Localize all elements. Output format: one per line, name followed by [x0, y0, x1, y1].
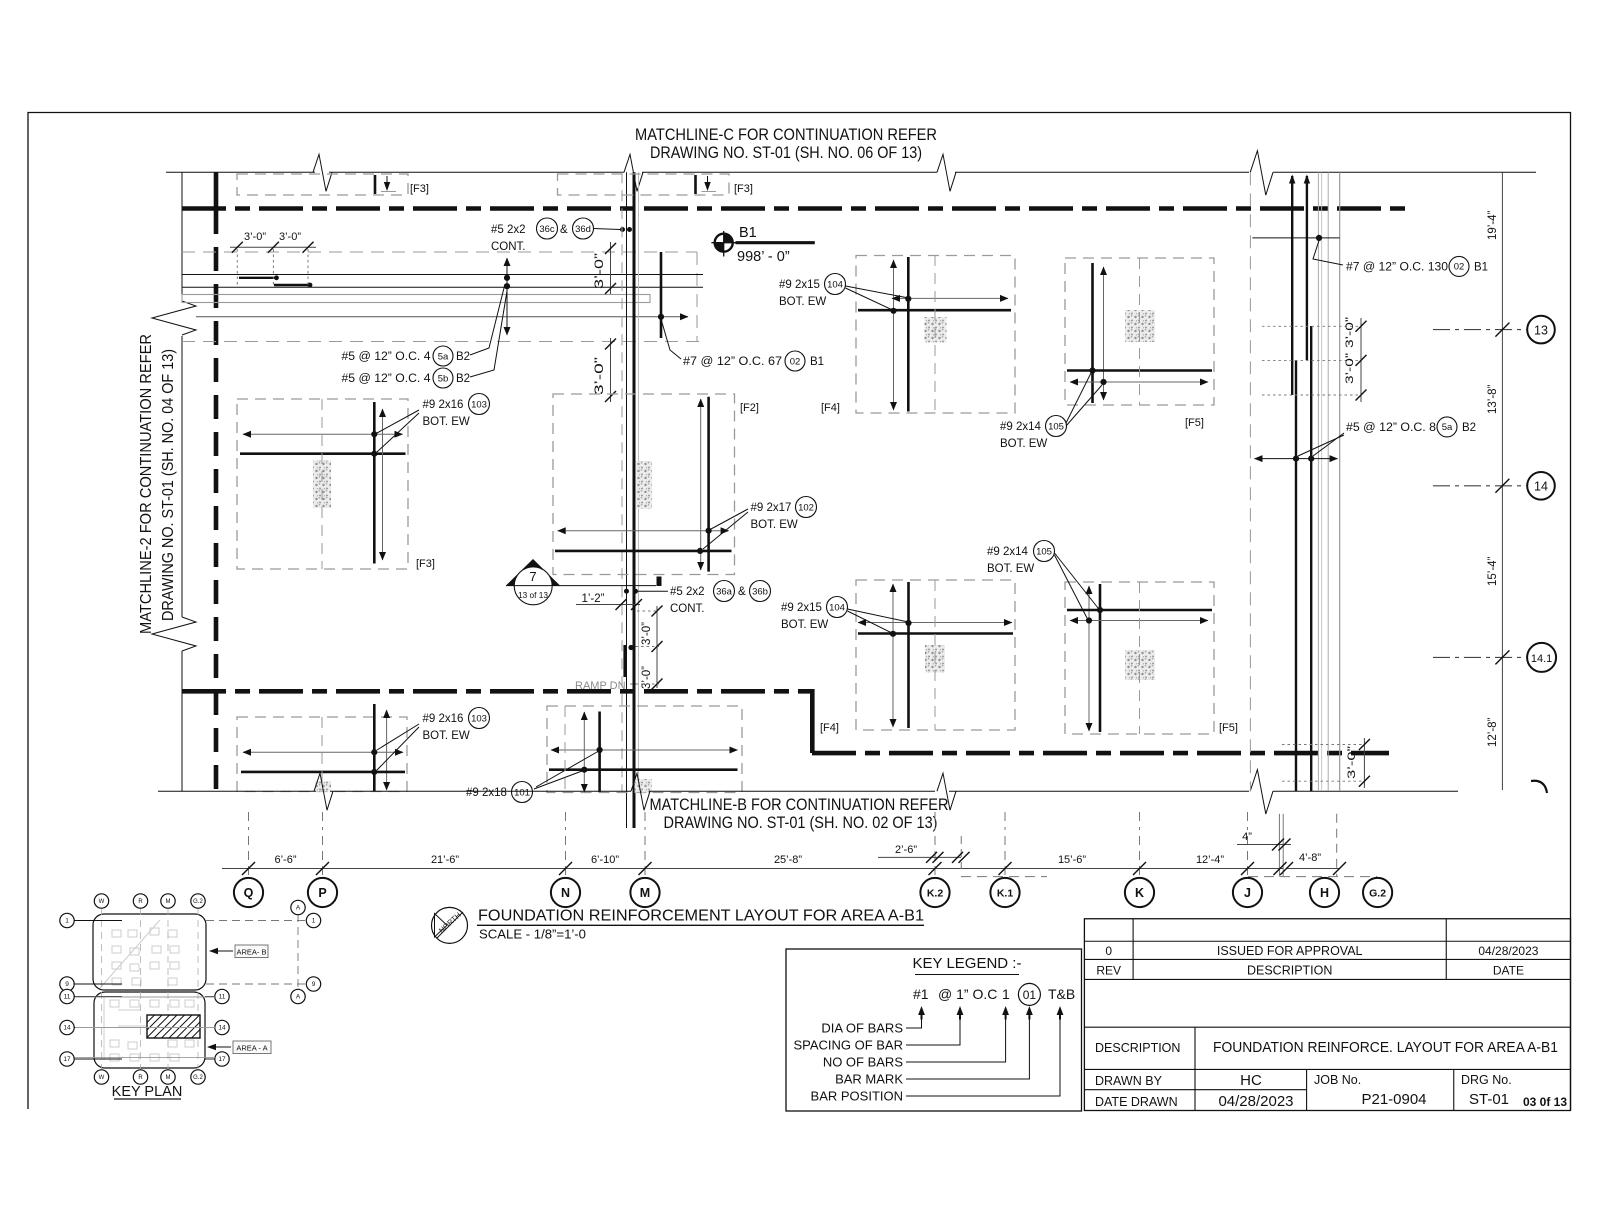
svg-text:[F3]: [F3] [734, 183, 753, 195]
svg-text:[F5]: [F5] [1219, 722, 1238, 734]
svg-text:#5 @ 12” O.C. 8: #5 @ 12” O.C. 8 [1346, 422, 1436, 434]
svg-text:21’-6”: 21’-6” [431, 854, 459, 866]
svg-text:B1: B1 [1474, 262, 1488, 274]
key plan left bubbles [74, 920, 122, 922]
svg-text:9: 9 [65, 981, 69, 988]
svg-text:SPACING OF BAR: SPACING OF BAR [793, 1038, 903, 1053]
svg-text:#9 2x18: #9 2x18 [466, 787, 507, 799]
north symbol [432, 907, 468, 943]
vertical bar marker x=507 [506, 258, 508, 335]
svg-text:BOT. EW: BOT. EW [779, 296, 826, 308]
svg-text:HC: HC [1240, 1072, 1262, 1089]
svg-text:3’-0”: 3’-0” [244, 231, 266, 243]
bottom-center hatch [635, 779, 653, 793]
svg-text:#5 2x2: #5 2x2 [670, 586, 705, 598]
top band rebar line y=274.5 [182, 274, 703, 276]
svg-text:0: 0 [1105, 944, 1112, 958]
key plan lower grid lines [75, 996, 215, 998]
right wall gray faces [1317, 172, 1319, 791]
key plan upper block [93, 914, 206, 990]
svg-text:BAR MARK: BAR MARK [835, 1072, 903, 1087]
svg-text:#9 2x16: #9 2x16 [423, 713, 464, 725]
title block horizontal lines [1084, 940, 1570, 942]
svg-text:BOT. EW: BOT. EW [1000, 438, 1047, 450]
M wall rebar thin x=626.5 [626, 172, 628, 828]
main bottom dimension line [222, 868, 1283, 870]
svg-text:NO OF BARS: NO OF BARS [823, 1055, 904, 1070]
page border frame [28, 113, 1571, 1111]
F3 bottom hatch [315, 781, 331, 792]
svg-text:K: K [1135, 886, 1144, 900]
svg-text:105: 105 [1048, 421, 1064, 432]
svg-text:19’-4”: 19’-4” [1487, 210, 1499, 240]
svg-text:36b: 36b [752, 586, 768, 597]
svg-text:5b: 5b [438, 373, 449, 384]
footing F3 top-left (cut) [237, 174, 408, 195]
K.2 grid dashes through footings [934, 255, 936, 413]
footing F4 upper [856, 256, 1015, 414]
svg-text:1: 1 [1002, 986, 1010, 1002]
key plan hatched area A-B1 [147, 1015, 200, 1038]
break symbol bottom 1 [314, 773, 333, 810]
svg-text:RAMP DN: RAMP DN [575, 680, 626, 692]
svg-text:[F4]: [F4] [820, 722, 839, 734]
svg-text:14: 14 [63, 1025, 71, 1032]
footing F2 center [553, 394, 735, 575]
svg-text:1: 1 [312, 918, 316, 925]
svg-text:12’-8”: 12’-8” [1487, 717, 1499, 747]
key plan right bubbles [205, 996, 215, 998]
key plan area boundary dashed [206, 920, 306, 922]
right wall rebar B [1306, 176, 1308, 360]
svg-text:02: 02 [1454, 262, 1465, 273]
grid bubble M [630, 878, 659, 907]
section marker 7 / 13 of 13 [506, 559, 560, 586]
B1 benchmark symbol [715, 234, 733, 252]
svg-text:998’ - 0”: 998’ - 0” [737, 249, 790, 265]
M wall rebar thick x=634 [633, 172, 636, 828]
key legend box [786, 949, 1082, 1111]
3-0 3-0 vertical dim top right [1262, 325, 1361, 327]
right vertical dim line [1501, 172, 1503, 790]
svg-text:BAR POSITION: BAR POSITION [811, 1089, 903, 1104]
svg-text:1’-2”: 1’-2” [581, 593, 604, 605]
svg-text:M: M [166, 899, 171, 905]
top bar with dot y=238 [1252, 237, 1339, 239]
svg-text:11: 11 [219, 994, 226, 1001]
svg-text:A: A [296, 905, 301, 912]
dim ticks [242, 862, 255, 875]
svg-text:#7 @ 12” O.C. 130: #7 @ 12” O.C. 130 [1346, 262, 1448, 274]
key plan bottom bubbles [94, 1070, 108, 1084]
svg-text:#7 @ 12” O.C. 67: #7 @ 12” O.C. 67 [683, 356, 782, 368]
svg-text:DESCRIPTION: DESCRIPTION [1247, 964, 1332, 978]
svg-text:G.2: G.2 [193, 1075, 203, 1081]
svg-text:#9 2x15: #9 2x15 [781, 602, 822, 614]
svg-text:BOT. EW: BOT. EW [423, 416, 470, 428]
svg-text:3’-0”: 3’-0” [641, 666, 653, 689]
svg-text:#5 @ 12” O.C. 4: #5 @ 12” O.C. 4 [342, 351, 432, 363]
svg-text:MATCHLINE-C FOR CONTINUATION: MATCHLINE-C FOR CONTINUATION REFER [635, 126, 937, 144]
svg-text:#5 2x2: #5 2x2 [491, 224, 526, 236]
svg-text:@ 1” O.C: @ 1” O.C [938, 986, 997, 1002]
grid bubble K.1 [990, 878, 1019, 907]
svg-text:11: 11 [64, 994, 71, 1001]
svg-text:13 of 13: 13 of 13 [518, 590, 548, 600]
break symbol top 2 [937, 154, 956, 191]
svg-text:2’-6”: 2’-6” [895, 844, 917, 856]
grid M dashed line x=622 [621, 172, 623, 791]
F3 column hatch [313, 461, 331, 509]
svg-text:G.2: G.2 [193, 899, 203, 905]
svg-text:BOT. EW: BOT. EW [987, 563, 1034, 575]
svg-text:DRAWING NO. ST-01 (SH. NO. 06: DRAWING NO. ST-01 (SH. NO. 06 OF 13) [650, 144, 922, 162]
svg-text:BOT. EW: BOT. EW [751, 519, 798, 531]
heavy matchline C wall dash-dot [182, 206, 1412, 211]
svg-text:03 0f 13: 03 0f 13 [1523, 1095, 1567, 1109]
svg-text:&: & [738, 586, 746, 598]
svg-text:#5 @ 12” O.C. 4: #5 @ 12” O.C. 4 [342, 373, 432, 385]
svg-text:36a: 36a [716, 586, 733, 597]
title block vertical lines [1132, 919, 1134, 980]
footing F5 lower [1065, 582, 1214, 734]
lap bar 2 [274, 284, 310, 286]
break symbol bottom 2 [937, 773, 956, 810]
svg-text:04/28/2023: 04/28/2023 [1478, 944, 1538, 958]
grid bubble Q [234, 878, 263, 907]
svg-text:DIA OF BARS: DIA OF BARS [821, 1021, 903, 1036]
svg-text:5a: 5a [438, 351, 449, 362]
svg-text:[F3]: [F3] [410, 183, 429, 195]
svg-text:9: 9 [312, 981, 316, 988]
svg-text:3’-0”: 3’-0” [1344, 317, 1356, 348]
svg-text:AREA - A: AREA - A [236, 1044, 267, 1053]
left edge break lower [152, 617, 196, 651]
svg-text:#9 2x15: #9 2x15 [779, 279, 820, 291]
svg-text:W: W [99, 1075, 105, 1081]
break symbol top 3 [1250, 151, 1273, 195]
key plan top bubbles [94, 894, 108, 908]
svg-text:17: 17 [218, 1056, 226, 1063]
svg-text:02: 02 [790, 356, 801, 367]
svg-text:SCALE - 1/8”=1’-0: SCALE - 1/8”=1’-0 [479, 927, 586, 942]
svg-text:103: 103 [471, 713, 487, 724]
svg-text:14.1: 14.1 [1531, 653, 1552, 665]
grid 14 bubble [1433, 485, 1527, 487]
grade beam gray dashed boundary y=252 [182, 251, 697, 253]
plan bottom edge line [158, 790, 316, 792]
key plan A/1/9 bubbles right [291, 900, 305, 914]
svg-text:FOUNDATION REINFORCEMENT LAYOU: FOUNDATION REINFORCEMENT LAYOUT FOR AREA… [478, 908, 924, 925]
F5 lower column hatch [1125, 650, 1155, 680]
svg-text:A: A [296, 994, 301, 1001]
svg-text:DATE: DATE [1493, 964, 1524, 978]
svg-text:K.1: K.1 [997, 887, 1014, 899]
svg-text:[F2]: [F2] [740, 402, 759, 414]
svg-text:3’-0”: 3’-0” [594, 253, 606, 289]
svg-text:MATCHLINE-B FOR CONTINUATION: MATCHLINE-B FOR CONTINUATION REFER [650, 796, 949, 814]
left edge break upper [152, 301, 196, 335]
svg-text:M: M [166, 1075, 171, 1081]
M wall lap bar [623, 645, 626, 677]
svg-text:5a: 5a [1442, 422, 1453, 433]
svg-text:W: W [99, 899, 105, 905]
grid bubble J [1233, 878, 1262, 907]
K grid dashes through footings [1139, 258, 1141, 405]
svg-text:103: 103 [471, 399, 487, 410]
svg-text:B2: B2 [456, 373, 470, 385]
svg-text:J: J [1244, 886, 1251, 900]
key plan grid dashed verticals [101, 908, 103, 1071]
svg-text:3’-0”: 3’-0” [279, 231, 301, 243]
top band rebar line y=287.3 [182, 286, 703, 288]
key legend arrows [918, 1006, 925, 1015]
right wall rebar C [1310, 326, 1312, 791]
svg-text:36c: 36c [539, 224, 555, 235]
svg-text:M: M [640, 886, 650, 900]
svg-text:B1: B1 [739, 225, 757, 241]
svg-text:17: 17 [63, 1056, 71, 1063]
svg-text:N: N [561, 886, 570, 900]
heavy wall line y=691 [182, 689, 812, 694]
svg-text:101: 101 [514, 787, 530, 798]
H grid double extension [1278, 814, 1280, 877]
leader to wall dots [594, 229, 621, 230]
heavy wall line y=753 [812, 751, 1389, 756]
lap bar 1 [239, 277, 277, 279]
vertical bar at 661 [660, 252, 663, 338]
svg-text:#9 2x14: #9 2x14 [987, 546, 1029, 558]
svg-text:BOT. EW: BOT. EW [423, 730, 470, 742]
grid 13 bubble [1433, 329, 1528, 331]
svg-text:25’-8”: 25’-8” [774, 854, 802, 866]
svg-text:KEY PLAN: KEY PLAN [112, 1084, 183, 1100]
grid bubble K [1125, 878, 1154, 907]
svg-text:[F3]: [F3] [416, 558, 435, 570]
svg-text:#9 2x16: #9 2x16 [423, 399, 464, 411]
3-0 vertical dim bottom right [1282, 744, 1364, 746]
svg-text:DRAWN BY: DRAWN BY [1095, 1074, 1163, 1088]
M wall gray face x=638.5 [638, 172, 640, 791]
svg-text:JOB No.: JOB No. [1314, 1073, 1361, 1087]
svg-text:CONT.: CONT. [670, 603, 705, 615]
plan top edge line [166, 171, 315, 173]
dashed line at bubbles level right [1248, 876, 1377, 878]
svg-text:13: 13 [1534, 323, 1548, 337]
svg-text:T&B: T&B [1048, 986, 1075, 1002]
key plan interior detail [112, 930, 121, 937]
svg-text:6’-6”: 6’-6” [274, 854, 296, 866]
grid bubble N [551, 878, 580, 907]
leaders from B2 labels [470, 284, 505, 355]
svg-text:14: 14 [218, 1025, 226, 1032]
svg-text:K.2: K.2 [927, 887, 944, 899]
break symbol bottom M [631, 773, 650, 810]
svg-text:04/28/2023: 04/28/2023 [1218, 1093, 1293, 1110]
svg-text:BOT. EW: BOT. EW [781, 619, 828, 631]
svg-text:3’-0”: 3’-0” [594, 357, 606, 395]
svg-text:B1: B1 [810, 356, 824, 368]
label 5 2x2 36a 36b [624, 589, 629, 594]
svg-text:G.2: G.2 [1369, 887, 1386, 899]
grid bubble P [308, 878, 337, 907]
svg-text:102: 102 [798, 502, 814, 513]
svg-text:104: 104 [829, 602, 845, 613]
heavy wall step vertical [810, 689, 815, 753]
svg-text:DRAWING NO. ST-01 (SH. NO. 02: DRAWING NO. ST-01 (SH. NO. 02 OF 13) [664, 814, 938, 832]
svg-text:7: 7 [529, 569, 536, 584]
svg-text:[F5]: [F5] [1185, 417, 1204, 429]
footing F3 top-middle (cut) [558, 174, 730, 195]
grade beam gray boundary y=342 [182, 341, 700, 343]
svg-text:B2: B2 [1462, 422, 1476, 434]
mid arrow line y=458.6 [1255, 458, 1338, 460]
title block frame [1084, 919, 1570, 1111]
AREA-B label [235, 945, 268, 958]
footing F3 bottom-left (cut) [237, 717, 407, 792]
svg-text:3’-0”: 3’-0” [641, 622, 653, 645]
rebar line y=316.8 with dot and arrow [196, 316, 688, 318]
grid H dashed line x=1250 [1249, 172, 1251, 791]
svg-text:4’-8”: 4’-8” [1299, 852, 1321, 864]
svg-text:DATE DRAWN: DATE DRAWN [1095, 1095, 1178, 1109]
footing bottom-center (cut) [547, 706, 742, 793]
svg-text:12’-4”: 12’-4” [1196, 854, 1224, 866]
svg-text:H: H [1320, 886, 1329, 900]
svg-text:#1: #1 [913, 986, 929, 1002]
svg-text:FOUNDATION REINFORCE. LAYOUT F: FOUNDATION REINFORCE. LAYOUT FOR AREA A-… [1213, 1040, 1558, 1056]
F2 column hatch [636, 461, 652, 509]
svg-text:REV: REV [1096, 964, 1121, 978]
svg-text:P: P [318, 886, 326, 900]
P grid dashes through footings [321, 399, 323, 569]
grid extension dashes [248, 836, 250, 877]
svg-text:DESCRIPTION: DESCRIPTION [1095, 1041, 1180, 1055]
grid bubble G.2 [1363, 878, 1392, 907]
svg-text:#9 2x14: #9 2x14 [1000, 421, 1042, 433]
svg-text:P21-0904: P21-0904 [1361, 1091, 1426, 1108]
break symbol top 0 [313, 154, 332, 191]
plan left edge line x=182 [181, 172, 183, 300]
svg-text:104: 104 [827, 279, 843, 290]
key plan lower block [94, 992, 205, 1068]
svg-text:14: 14 [1534, 480, 1548, 494]
grid bubble H [1310, 878, 1339, 907]
N grid dashes through footing [564, 706, 566, 792]
svg-text:DRG No.: DRG No. [1461, 1073, 1512, 1087]
svg-text:R: R [138, 1075, 143, 1081]
svg-text:01: 01 [1023, 988, 1037, 1002]
svg-text:DRAWING NO. ST-01 (SH. NO. 04: DRAWING NO. ST-01 (SH. NO. 04 OF 13) [160, 349, 177, 621]
right wall rebar D [1295, 360, 1297, 791]
G.2 area dashed extension [1336, 814, 1338, 877]
svg-text:KEY LEGEND :-: KEY LEGEND :- [913, 955, 1022, 972]
svg-text:AREA- B: AREA- B [236, 948, 266, 957]
footing F3 row2-left [237, 399, 408, 569]
svg-text:15’-6”: 15’-6” [1058, 854, 1086, 866]
svg-text:R: R [138, 899, 143, 905]
svg-text:ISSUED FOR APPROVAL: ISSUED FOR APPROVAL [1217, 944, 1363, 958]
F5 column hatch [1125, 310, 1155, 342]
svg-text:6’-10”: 6’-10” [591, 854, 619, 866]
svg-text:15’-4”: 15’-4” [1487, 556, 1499, 586]
svg-text:CONT.: CONT. [491, 241, 526, 253]
break symbol bottom 3 [1250, 770, 1273, 814]
key legend leaders [906, 1019, 922, 1028]
svg-text:4”: 4” [1242, 831, 1252, 843]
svg-text:1: 1 [65, 918, 69, 925]
footing F5 upper [1065, 258, 1214, 405]
svg-text:MATCHLINE-2 FOR CONTINUATION: MATCHLINE-2 FOR CONTINUATION REFER [138, 334, 155, 634]
svg-text:Q: Q [244, 886, 254, 900]
svg-text:36d: 36d [575, 224, 591, 235]
svg-text:&: & [560, 224, 568, 236]
svg-text:ST-01: ST-01 [1469, 1091, 1509, 1108]
AREA-A label [233, 1041, 271, 1054]
footing F4 lower [856, 580, 1015, 730]
svg-text:105: 105 [1036, 546, 1052, 557]
right wall rebar A [1291, 176, 1293, 395]
svg-text:3’-0”: 3’-0” [1346, 746, 1358, 779]
grid bubble K.2 [920, 878, 949, 907]
grid 14.1 bubble [1433, 656, 1527, 658]
svg-text:#9 2x17: #9 2x17 [751, 502, 792, 514]
svg-text:13’-8”: 13’-8” [1487, 384, 1499, 414]
F4 lower column hatch [925, 645, 945, 673]
break symbol top 1 [624, 154, 643, 191]
gray band (thickened edge) [182, 295, 650, 303]
F4 column hatch [925, 317, 947, 343]
svg-text:3’-0”: 3’-0” [1344, 353, 1356, 384]
small arc bottom right [1531, 781, 1547, 793]
left wall heavy dashed x=216 [214, 172, 219, 210]
svg-text:[F4]: [F4] [821, 402, 840, 414]
svg-text:B2: B2 [456, 351, 470, 363]
